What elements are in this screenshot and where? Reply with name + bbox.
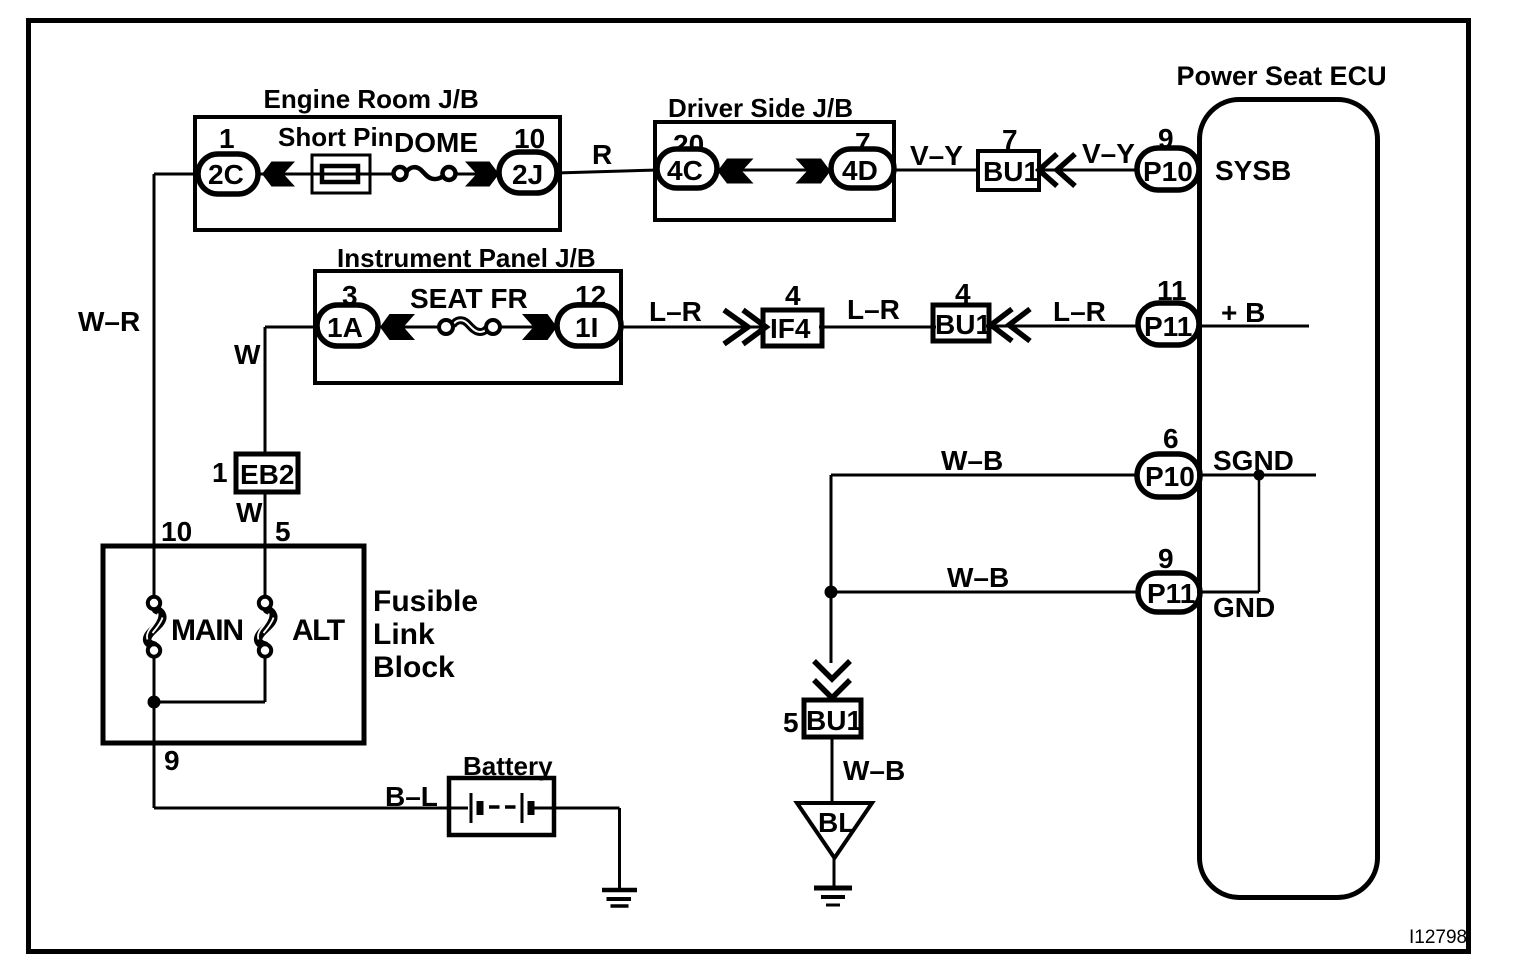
svg-text:Power Seat ECU: Power Seat ECU [1177,61,1387,91]
svg-text:+ B: + B [1221,297,1265,328]
svg-text:W–B: W–B [947,562,1009,593]
svg-text:6: 6 [1163,423,1179,454]
svg-text:V–Y: V–Y [910,140,963,171]
svg-text:W–B: W–B [843,755,905,786]
svg-text:Engine Room J/B: Engine Room J/B [264,84,479,114]
svg-text:1A: 1A [327,312,363,343]
svg-text:1I: 1I [575,312,598,343]
svg-text:4: 4 [785,280,801,311]
svg-text:4D: 4D [842,155,878,186]
svg-text:2J: 2J [512,159,543,190]
svg-text:L–R: L–R [649,296,702,327]
svg-text:ALT: ALT [292,614,345,647]
svg-text:7: 7 [1002,124,1018,155]
svg-text:DOME: DOME [394,127,478,158]
svg-text:BU1: BU1 [806,705,862,736]
svg-text:W: W [236,497,263,528]
svg-text:V–Y: V–Y [1082,138,1135,169]
svg-text:P11: P11 [1144,311,1192,342]
svg-text:Instrument Panel J/B: Instrument Panel J/B [337,243,596,273]
svg-text:EB2: EB2 [240,459,294,490]
svg-text:MAIN: MAIN [171,614,243,647]
svg-text:B–L: B–L [385,781,438,812]
svg-text:P11: P11 [1147,578,1195,609]
svg-text:Short Pin: Short Pin [278,122,394,152]
svg-text:P10: P10 [1143,156,1193,187]
svg-text:I12798: I12798 [1409,927,1467,948]
svg-text:SEAT FR: SEAT FR [410,283,528,314]
svg-text:W–R: W–R [78,306,140,337]
svg-text:P10: P10 [1145,461,1195,492]
svg-text:10: 10 [161,516,192,547]
svg-text:Block: Block [373,651,455,684]
svg-text:9: 9 [1158,543,1174,574]
svg-text:BU1: BU1 [935,309,991,340]
svg-text:Fusible: Fusible [373,585,478,618]
svg-text:L–R: L–R [1053,296,1106,327]
svg-text:L–R: L–R [847,294,900,325]
svg-text:Link: Link [373,618,435,651]
svg-text:W–B: W–B [941,445,1003,476]
svg-text:BU1: BU1 [983,156,1039,187]
svg-text:2C: 2C [208,159,244,190]
svg-text:IF4: IF4 [770,313,811,344]
svg-text:5: 5 [783,707,799,738]
svg-text:1: 1 [212,457,228,488]
svg-text:W: W [234,339,261,370]
svg-text:BL: BL [818,807,855,838]
svg-text:9: 9 [164,745,180,776]
svg-text:SGND: SGND [1213,445,1294,476]
svg-text:GND: GND [1213,592,1275,623]
svg-text:R: R [592,139,612,170]
svg-text:SYSB: SYSB [1215,155,1291,186]
svg-text:5: 5 [275,516,291,547]
svg-text:4: 4 [955,278,971,309]
svg-text:Driver Side J/B: Driver Side J/B [668,93,853,123]
svg-text:4C: 4C [667,155,703,186]
svg-text:1: 1 [219,123,235,154]
